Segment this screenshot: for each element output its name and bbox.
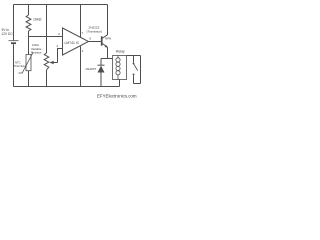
transistor Q1 emitter with arrow [102, 43, 107, 58]
svg-text:NPN: NPN [105, 36, 111, 40]
op-amp U1 LM741 [63, 28, 89, 55]
relay contact point top [133, 63, 135, 65]
svg-text:1N4007: 1N4007 [85, 67, 96, 71]
wire pin 7 to positive rail [80, 5, 82, 38]
wire wiper to pin 2 [58, 49, 63, 63]
wire resistor top lead [28, 5, 30, 16]
svg-text:10kΩ: 10kΩ [33, 18, 42, 22]
thermistor TH1 [19, 53, 34, 74]
wire relay contact loop right [140, 56, 142, 84]
transistor Q1 base bar [101, 36, 103, 45]
battery B1 [9, 41, 19, 87]
wire diode cathode lead [100, 59, 102, 66]
label VR1 value [31, 43, 42, 55]
wire top positive rail [14, 4, 108, 6]
svg-text:EFYElectronics.com: EFYElectronics.com [97, 94, 137, 99]
label battery voltage [2, 28, 14, 36]
svg-text:Relay: Relay [116, 50, 125, 54]
svg-text:(Transistor): (Transistor) [87, 30, 103, 34]
wire pin 4 to ground rail [80, 46, 82, 86]
wire bottom ground rail [14, 86, 120, 88]
relay switch arm [134, 64, 138, 71]
svg-text:NTC: NTC [15, 61, 21, 65]
svg-text:Resistor: Resistor [31, 51, 42, 55]
diode D1 1N4007 [98, 65, 105, 72]
wire diode anode to ground rail [100, 73, 102, 87]
variable resistor VR1 preset [44, 53, 49, 70]
label Q1 type NPN [105, 36, 111, 40]
svg-text:12V DC: 12V DC [2, 32, 14, 36]
relay NO contact stem [133, 75, 135, 83]
svg-text:7: 7 [82, 31, 84, 35]
wire node A down to thermistor [28, 37, 30, 55]
transistor Q1 collector [102, 5, 107, 39]
wire output pin 6 to base [89, 41, 102, 43]
label pin 2 [57, 44, 59, 48]
svg-text:6: 6 [90, 37, 92, 41]
svg-text:3: 3 [58, 32, 60, 36]
relay RL1 box [113, 56, 127, 80]
label Q1 2N2222 [87, 26, 103, 34]
label relay [116, 50, 125, 54]
wire ground rail up to relay coil [119, 80, 121, 87]
wire preset to ground rail [46, 70, 48, 87]
relay contact point bottom [133, 74, 135, 76]
wire thermistor to ground rail [28, 71, 30, 87]
label D1 1N4007 [85, 67, 96, 71]
relay common pole stem [133, 56, 135, 63]
label pin 4 [82, 49, 84, 53]
label R1 value 10k [33, 18, 42, 22]
wire node A to pin 3 [29, 36, 63, 38]
wire relay contact loop bottom [134, 83, 141, 85]
label pin 6 [90, 37, 92, 41]
svg-text:2: 2 [57, 44, 59, 48]
label pin 3 [58, 32, 60, 36]
svg-text:LM741 IC: LM741 IC [65, 41, 80, 45]
wire emitter junction to coil and diode [101, 58, 113, 60]
svg-text:4: 4 [82, 49, 84, 53]
resistor R1 [26, 15, 31, 31]
wire relay contact loop top [127, 55, 141, 57]
label pin 7 [82, 31, 84, 35]
wire left from rail to battery [13, 5, 15, 41]
svg-text:Thermistor: Thermistor [14, 64, 27, 68]
wire preset top lead from rail [46, 5, 48, 54]
label U1 LM741 IC [65, 41, 80, 45]
label thermistor [14, 61, 27, 69]
wire R1 to node A [28, 31, 30, 37]
wiper arrow of VR1 [49, 61, 57, 64]
relay RL1 coil [116, 56, 120, 80]
